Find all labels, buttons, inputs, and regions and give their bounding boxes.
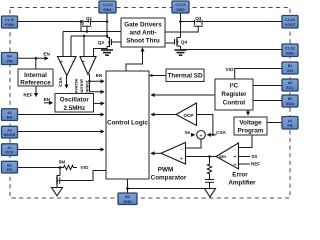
svg-text:FB: FB [287,123,292,128]
wire OCP comparator input tap [197,115,213,135]
svg-text:SW1: SW1 [103,7,112,12]
wire Q1 drain to SW1 node [91,21,108,23]
svg-text:gm: gm [219,154,226,159]
op-amp error amplifier [216,143,239,169]
resistor 5M [60,165,77,169]
wire SS input [239,156,250,158]
svg-text:VIO: VIO [81,165,89,170]
pin SCL [282,79,298,91]
wire T1 minus input drop [70,36,72,57]
wire control logic to GND pin [127,179,129,193]
wire PG pin line [18,167,61,169]
svg-text:PG: PG [7,167,13,172]
wire Q2 source sense [94,49,108,57]
block oscillator [55,94,94,113]
wire REF input [239,163,250,165]
wire SW sense line [71,35,107,37]
node Q1 gate junction [86,30,88,32]
wire sense line to gate driver [63,31,121,33]
node PG junction [59,166,62,169]
block control logic [106,71,149,179]
wire oscillator to control logic [94,102,105,104]
node ground junction [126,187,129,190]
svg-text:EN: EN [44,97,51,102]
wire I2C to voltage program arrow [247,110,249,115]
wire SCL pin to I2C [253,85,282,87]
svg-text:Shoot Thru: Shoot Thru [126,38,160,45]
node T2 output branch [88,80,90,82]
pin VIO [282,62,298,74]
op-amp T2 reverse current detect [80,57,96,75]
svg-text:+: + [180,157,183,163]
svg-text:EN: EN [7,115,13,120]
wire MODE pin to control logic [18,131,105,133]
node T2 plus tap [83,35,85,37]
wire summing node to PWM comparator [186,139,201,148]
op-amp T1 current sense amplifier CSA [58,57,77,76]
svg-text:GND: GND [123,199,132,204]
svg-text:+: + [199,133,202,139]
wire CSA into summing node [207,134,216,136]
pin PAD [282,44,298,57]
transistor pulldown FET [57,176,62,188]
svg-text:CSA: CSA [216,130,226,135]
wire SW2 vertical [180,13,182,38]
wire PG FET gate from control logic [62,171,106,181]
transistor Q2 [107,38,113,47]
svg-text:Register: Register [221,91,247,98]
wire T2 plus input drop [83,36,85,57]
pin FB [282,117,298,130]
svg-text:EN: EN [43,51,50,56]
pin GND [118,193,137,205]
svg-text:Gate Drivers: Gate Drivers [124,22,162,29]
svg-text:SDA: SDA [286,101,294,106]
svg-text:+: + [233,155,236,161]
svg-text:PVIN: PVIN [5,22,14,27]
svg-text:+: + [233,162,236,168]
block I2C register control [215,79,253,110]
svg-text:+: + [82,60,85,66]
wire error amp output to PWM comparator [186,156,216,158]
svg-text:SS: SS [251,154,257,159]
node SW2 junction [179,20,182,23]
ground open triangle (PG) [52,188,63,196]
svg-text:CSA: CSA [58,76,63,86]
pin MODE [2,126,18,138]
transistor Q4 [174,38,181,47]
svg-text:REF: REF [251,162,260,167]
svg-text:VOUT: VOUT [285,22,296,27]
svg-text:2.5MHz: 2.5MHz [63,105,85,112]
svg-text:-: - [92,59,94,65]
wire capacitor to ground rail [209,182,211,188]
svg-text:Oscillator: Oscillator [60,97,90,104]
wire OCP comparator output to control logic [151,114,176,116]
wire VIO pin to I2C [235,69,282,80]
wire CSA output arrow [66,75,68,88]
wire REF output arrow [35,86,37,97]
pin SW1 [99,1,116,13]
ground bars (Q2) [101,50,113,55]
svg-text:REF: REF [23,93,32,98]
node thermal tap [151,74,153,76]
wire OCP pin to control logic [18,149,105,151]
transistor Q3 [194,20,204,26]
node PVIN sense tap [80,20,83,23]
svg-text:Detect: Detect [85,80,90,95]
wire analog ground rail [128,188,216,190]
svg-text:Program: Program [238,128,264,135]
svg-text:Q4: Q4 [181,40,188,45]
wire PVIN tap drop [80,22,82,32]
wire SW1 vertical [106,13,108,38]
wire EN pin to control logic [18,114,105,116]
svg-text:Control Logic: Control Logic [107,120,148,127]
resistor compensation [207,157,211,180]
svg-text:VIN: VIN [6,59,13,64]
summing node circle [197,131,206,140]
svg-text:Reference: Reference [20,80,51,87]
wire SDA pin to I2C [253,100,282,102]
svg-text:Q1: Q1 [86,16,93,21]
svg-text:-: - [234,146,236,152]
svg-text:Internal: Internal [24,72,47,79]
wire I2C to control logic [151,94,215,96]
wire T1 plus input drop [62,32,64,57]
pin OCP [2,144,18,156]
wire Q4 source to ground [180,46,182,50]
wire PVIN rail [18,21,84,23]
svg-text:and Anti-: and Anti- [129,30,156,37]
svg-text:SW2: SW2 [176,7,185,12]
wire Q3 drain to VOUT pin [202,21,282,23]
svg-text:EN: EN [96,73,103,78]
wire T2 branch to control logic [90,81,105,92]
svg-text:-: - [181,147,183,153]
ground bars (Q4) [175,50,187,55]
svg-text:MODE: MODE [4,132,16,137]
pin VIN [2,53,18,65]
svg-text:OCP: OCP [184,113,194,118]
svg-text:Voltage: Voltage [239,120,262,127]
block thermal SD [166,69,204,82]
svg-text:VIO: VIO [287,68,294,73]
block voltage program [234,117,267,135]
wire VIN to internal reference [35,58,37,69]
svg-text:SCL: SCL [286,85,294,90]
wire SW2 to Q3 [181,21,195,23]
pin SW2 [172,1,189,13]
pin SDA [282,95,298,107]
wire control logic to gate drivers arrow [126,48,143,71]
node CSA tap [212,134,214,136]
svg-text:Amplifier: Amplifier [228,180,256,187]
node SW sense junction [106,35,108,37]
wire Q2 gate line [112,41,122,43]
svg-text:Control: Control [223,100,246,107]
capacitor compensation [205,179,214,181]
svg-text:Comparator: Comparator [151,175,187,182]
wire EN into oscillator [44,102,53,104]
node compensation tap [208,155,211,158]
wire VP feedback to error amp [239,135,252,148]
wire FB pin to voltage program [267,122,282,124]
pin PG [2,161,18,173]
wire PG to pulldown FET drain [59,168,61,176]
comparator PWM [161,143,186,165]
svg-text:Se: Se [184,130,190,135]
wire Q2 source to ground [106,47,108,50]
block gate drivers [121,18,165,47]
svg-text:VIO: VIO [226,67,234,72]
wire Q3 gate line to gate driver [165,26,198,32]
pin VOUT [282,16,298,29]
svg-text:I²C: I²C [230,83,239,90]
node VIN tap [35,57,38,60]
wire thermal SD to control logic [149,75,166,77]
wire Q4 ground to PAD pin [181,49,282,51]
svg-text:PAD: PAD [286,50,294,55]
svg-text:5M: 5M [59,159,66,164]
wire PWM comparator output to control logic [151,152,161,154]
chip boundary dashed border [10,8,290,199]
node SW1 junction [106,20,109,23]
comparator OCP [176,103,197,126]
block internal reference [18,69,53,86]
wire Se into summing node [191,134,195,136]
svg-text:+: + [60,60,63,66]
wire Q4 gate line [165,42,175,44]
wire T2 output EN to control logic [90,74,105,81]
svg-text:Error: Error [232,172,248,179]
svg-text:Q2: Q2 [98,40,105,45]
pin EN [2,109,18,121]
svg-text:PWM: PWM [158,167,173,174]
transistor Q1 [82,20,92,32]
ground open triangle (compensation) [205,189,216,198]
svg-text:Thermal SD: Thermal SD [168,73,203,80]
svg-text:-: - [71,59,73,65]
svg-text:Q3: Q3 [195,16,202,21]
wire VIN rail [18,57,49,59]
pin PVIN [2,16,18,28]
svg-text:OCP: OCP [5,150,14,155]
